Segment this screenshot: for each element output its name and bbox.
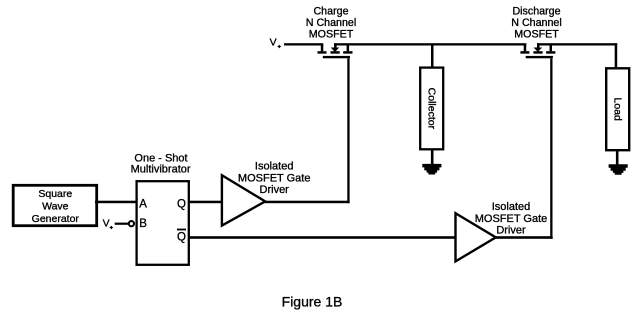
svg-text:MOSFET Gate: MOSFET Gate	[475, 213, 548, 225]
svg-text:N Channel: N Channel	[511, 17, 562, 29]
ground (below Collector)	[422, 164, 441, 175]
wire: rail from charge MOSFET source to discharge MOSFET drain	[334, 43, 526, 45]
svg-text:V: V	[270, 36, 277, 48]
block: Square Wave Generator	[13, 185, 97, 225]
transistor Q1 charge N-channel MOSFET	[318, 43, 353, 58]
resistor block: Collector box	[420, 68, 443, 150]
wire: Collector box to ground	[431, 149, 434, 164]
label: One - Shot Multivibrator	[131, 153, 191, 176]
svg-text:N Channel: N Channel	[306, 17, 357, 29]
svg-text:Load: Load	[612, 98, 624, 122]
svg-text:MOSFET Gate: MOSFET Gate	[238, 172, 311, 184]
wire: Load box to ground	[616, 150, 619, 165]
node V+ (top rail label)	[270, 36, 281, 48]
wire: corner down to Load box	[615, 43, 618, 68]
svg-text:B: B	[139, 218, 147, 230]
pin label Q-bar	[177, 229, 186, 244]
label: Isolated MOSFET Gate Driver (1)	[238, 161, 311, 196]
svg-text:Isolated: Isolated	[492, 201, 531, 213]
svg-text:Multivibrator: Multivibrator	[131, 164, 191, 176]
wire: rail from discharge MOSFET source to Load	[537, 43, 617, 45]
svg-text:MOSFET: MOSFET	[514, 28, 559, 40]
svg-text:Square: Square	[38, 188, 72, 200]
op-amp buffer: isolated MOSFET gate driver 1	[222, 175, 265, 225]
inverter bubble on B input	[129, 221, 134, 226]
transistor Q2 discharge N-channel MOSFET	[520, 43, 555, 58]
resistor block: Load box	[606, 68, 629, 150]
svg-text:V: V	[103, 218, 110, 230]
wire: V+ rail segment to charge MOSFET drain	[284, 43, 323, 45]
svg-text:Generator: Generator	[32, 213, 80, 225]
wire: driver 2 output to discharge MOSFET gate (vertical riser)	[550, 58, 552, 239]
svg-text:Collector: Collector	[426, 88, 438, 130]
label: Discharge N Channel MOSFET	[511, 5, 562, 40]
svg-text:Q: Q	[177, 199, 186, 211]
svg-text:Figure 1B: Figure 1B	[282, 293, 343, 309]
op-amp buffer: isolated MOSFET gate driver 2	[456, 213, 496, 261]
svg-text:Wave: Wave	[42, 201, 69, 213]
wire: generator output to one-shot input A	[95, 201, 137, 204]
wire: Q output to gate driver 1	[188, 201, 222, 204]
node V+ (B input)	[103, 218, 113, 230]
svg-text:Isolated: Isolated	[255, 161, 294, 173]
ground (below Load)	[609, 164, 628, 175]
wire: V+ to inverter bubble at B	[115, 223, 129, 225]
wire: Q-bar output to gate driver 2	[188, 236, 456, 239]
wire: driver 1 output to charge MOSFET gate (horizontal)	[265, 201, 350, 204]
svg-text:Charge: Charge	[313, 5, 348, 17]
block U1: one-shot multivibrator	[137, 181, 189, 265]
svg-text:Driver: Driver	[260, 184, 290, 196]
wire: driver 1 output to charge MOSFET gate (vertical riser)	[347, 58, 349, 203]
svg-text:Driver: Driver	[496, 225, 526, 237]
label: Isolated MOSFET Gate Driver (2)	[475, 201, 548, 236]
label: Charge N Channel MOSFET	[306, 5, 357, 40]
wire: tap from rail down to Collector box	[431, 44, 434, 68]
svg-text:A: A	[139, 199, 147, 211]
svg-text:Discharge: Discharge	[512, 5, 560, 17]
wire: driver 2 output to discharge MOSFET gate (horizontal)	[496, 236, 553, 239]
svg-text:Q: Q	[177, 232, 186, 244]
svg-text:MOSFET: MOSFET	[309, 28, 354, 40]
